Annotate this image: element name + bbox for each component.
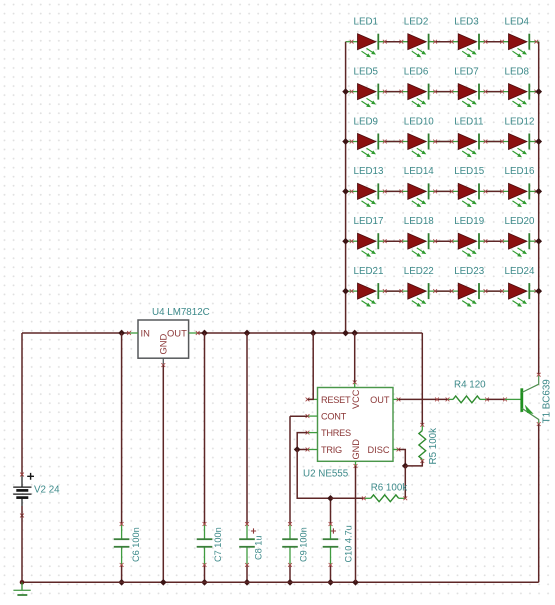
svg-text:LED13: LED13 xyxy=(354,166,385,177)
wire: T1 emitter to ground bus xyxy=(538,424,540,582)
wire: TRIG to junction xyxy=(297,449,307,451)
LED21 xyxy=(346,266,408,307)
wire: CONT to C9 xyxy=(290,415,308,417)
junction battery/ground bus xyxy=(20,580,25,585)
svg-text:LED12: LED12 xyxy=(505,116,535,127)
svg-text:LED3: LED3 xyxy=(454,17,479,28)
svg-text:LED16: LED16 xyxy=(505,166,536,177)
svg-text:GND: GND xyxy=(351,439,361,460)
voltage regulator U4 LM7812C xyxy=(127,307,210,367)
wire: DISC to R5/R6 junction xyxy=(399,450,406,466)
LED16 xyxy=(505,166,539,207)
wire: battery negative to ground bus xyxy=(21,506,23,582)
LED2 xyxy=(404,17,458,58)
junction LED bus/rail xyxy=(342,330,349,337)
resistor R4 120 xyxy=(446,379,489,402)
LED22 xyxy=(404,266,458,307)
LED9 xyxy=(346,116,408,157)
svg-text:LED5: LED5 xyxy=(354,66,379,77)
LED10 xyxy=(404,116,458,157)
LED17 xyxy=(346,216,408,257)
svg-text:LED7: LED7 xyxy=(454,66,479,77)
junction left bus xyxy=(342,188,349,195)
junction right bus xyxy=(535,238,542,245)
wire: THRES to TRIG node xyxy=(297,433,307,450)
svg-text:GND: GND xyxy=(158,333,169,354)
LED3 xyxy=(454,17,508,58)
svg-text:C6 100n: C6 100n xyxy=(131,527,141,562)
svg-text:IN: IN xyxy=(141,327,150,338)
resistor R5 100k xyxy=(419,423,439,465)
svg-text:LED23: LED23 xyxy=(454,266,485,277)
junction left bus xyxy=(342,288,349,295)
wire: U2 OUT to R4 xyxy=(399,398,448,400)
svg-text:LED14: LED14 xyxy=(404,166,435,177)
svg-text:LED11: LED11 xyxy=(454,116,483,127)
junction C9/ground bus xyxy=(287,579,294,586)
svg-text:LED19: LED19 xyxy=(454,216,484,227)
LED12 xyxy=(505,116,539,157)
capacitor C8 xyxy=(239,522,263,586)
junction right bus xyxy=(535,188,542,195)
svg-text:LED18: LED18 xyxy=(404,216,435,227)
junction left bus xyxy=(342,238,349,245)
wire: U2 GND to ground bus xyxy=(355,466,357,582)
svg-text:LED8: LED8 xyxy=(505,66,530,77)
svg-text:CONT: CONT xyxy=(321,412,347,422)
wire: TRIG node down to C10/R6 xyxy=(297,450,330,499)
junction right bus xyxy=(535,138,542,145)
junction U2 GND/ground bus xyxy=(352,579,359,586)
wire: C7 to +12V rail xyxy=(204,333,206,524)
wire: R5 to DISC junction xyxy=(405,461,422,466)
junction C10/TRIG node xyxy=(327,495,334,502)
svg-text:V2 24: V2 24 xyxy=(34,485,60,496)
LED24 xyxy=(505,266,539,307)
svg-text:U2 NE555: U2 NE555 xyxy=(303,469,349,480)
LED13 xyxy=(346,166,408,207)
junction DISC/R5/R6 xyxy=(402,463,409,470)
junction THRES/TRIG xyxy=(294,446,301,453)
svg-text:R4 120: R4 120 xyxy=(454,379,486,390)
svg-text:OUT: OUT xyxy=(370,395,390,405)
wire: LED matrix right bus to T1 collector xyxy=(538,42,540,375)
LED15 xyxy=(454,166,508,207)
svg-text:LED4: LED4 xyxy=(505,17,530,28)
svg-text:LED22: LED22 xyxy=(404,266,434,277)
U2 pin stubs xyxy=(306,380,401,468)
wire: junction down to R6 right xyxy=(404,466,406,498)
LED18 xyxy=(404,216,458,257)
wire: C10 to TRIG node xyxy=(330,498,332,524)
svg-text:OUT: OUT xyxy=(167,327,187,338)
svg-text:LED15: LED15 xyxy=(454,166,485,177)
junction C7/ground bus xyxy=(201,579,208,586)
wire: C9 to U2 CONT xyxy=(289,416,291,524)
svg-text:C8 1u: C8 1u xyxy=(254,535,264,560)
wire: battery positive drop xyxy=(21,333,23,475)
wire: C8 to +12V rail xyxy=(246,333,248,524)
battery V2 24 xyxy=(13,473,60,518)
junction C7/rail xyxy=(201,330,208,337)
LED6 xyxy=(404,66,458,107)
junction C6/rail xyxy=(118,330,125,337)
timer U2 NE555 xyxy=(303,388,393,480)
wire: ground bus xyxy=(22,581,539,583)
svg-text:U4 LM7812C: U4 LM7812C xyxy=(152,307,210,318)
wire: R4 to T1 base xyxy=(487,398,505,400)
wire: LED matrix left bus (+12V) xyxy=(345,42,347,333)
LED4 xyxy=(505,17,539,58)
svg-text:LED20: LED20 xyxy=(505,216,536,227)
junction C10/ground bus xyxy=(327,579,334,586)
wire: TRIG node to R6 left xyxy=(331,497,364,499)
LED7 xyxy=(454,66,508,107)
junction C6/ground bus xyxy=(118,579,125,586)
LED20 xyxy=(505,216,539,257)
junction right bus xyxy=(535,88,542,95)
resistor R6 100k xyxy=(362,483,407,502)
capacitor C10 xyxy=(323,522,354,586)
LED19 xyxy=(454,216,508,257)
wire: +12V rail from U4 OUT to R5 xyxy=(198,332,423,334)
ground symbol xyxy=(13,582,30,595)
svg-text:C10 4.7u: C10 4.7u xyxy=(344,525,354,562)
svg-text:LED17: LED17 xyxy=(354,216,384,227)
capacitor C6 xyxy=(114,522,141,586)
junction right bus xyxy=(535,288,542,295)
LED5 xyxy=(346,66,408,107)
svg-text:LED24: LED24 xyxy=(505,266,536,277)
svg-text:LED9: LED9 xyxy=(354,116,379,127)
wire: U4 GND to ground bus xyxy=(162,365,164,582)
wire: +24V rail from battery to U4 IN xyxy=(22,332,129,334)
svg-text:RESET: RESET xyxy=(321,395,351,405)
junction RESET/rail xyxy=(310,330,317,337)
svg-text:T1 BC639: T1 BC639 xyxy=(542,379,553,423)
LED8 xyxy=(505,66,539,107)
wire: +12V rail to R5 xyxy=(421,333,423,425)
capacitor C7 xyxy=(197,522,223,586)
svg-text:VCC: VCC xyxy=(351,389,361,409)
LED23 xyxy=(454,266,508,307)
capacitor C9 xyxy=(282,522,308,586)
svg-text:R5 100k: R5 100k xyxy=(428,428,439,465)
svg-text:LED10: LED10 xyxy=(404,116,435,127)
svg-text:TRIG: TRIG xyxy=(321,445,342,455)
LED11 xyxy=(454,116,508,157)
LED14 xyxy=(404,166,458,207)
svg-text:C9 100n: C9 100n xyxy=(299,527,309,562)
svg-text:C7 100n: C7 100n xyxy=(213,527,223,562)
junction left bus xyxy=(342,88,349,95)
svg-text:LED6: LED6 xyxy=(404,66,429,77)
LED1 xyxy=(346,17,408,58)
junction U4 GND/ground bus xyxy=(160,579,167,586)
svg-text:LED1: LED1 xyxy=(354,17,379,28)
svg-text:LED2: LED2 xyxy=(404,17,429,28)
wire: C6 to +24V rail xyxy=(121,333,123,524)
svg-text:THRES: THRES xyxy=(321,428,351,438)
junction C8/ground bus xyxy=(244,579,251,586)
junction left bus xyxy=(342,138,349,145)
junction C8/rail xyxy=(244,330,251,337)
svg-text:DISC: DISC xyxy=(368,445,390,455)
wire: RESET to +12V rail xyxy=(308,333,314,399)
wire: VCC to +12V rail xyxy=(354,333,356,382)
svg-text:LED21: LED21 xyxy=(354,266,384,277)
transistor T1 BC639 xyxy=(505,373,553,426)
junction VCC/rail xyxy=(351,330,358,337)
svg-text:R6 100k: R6 100k xyxy=(371,483,408,494)
